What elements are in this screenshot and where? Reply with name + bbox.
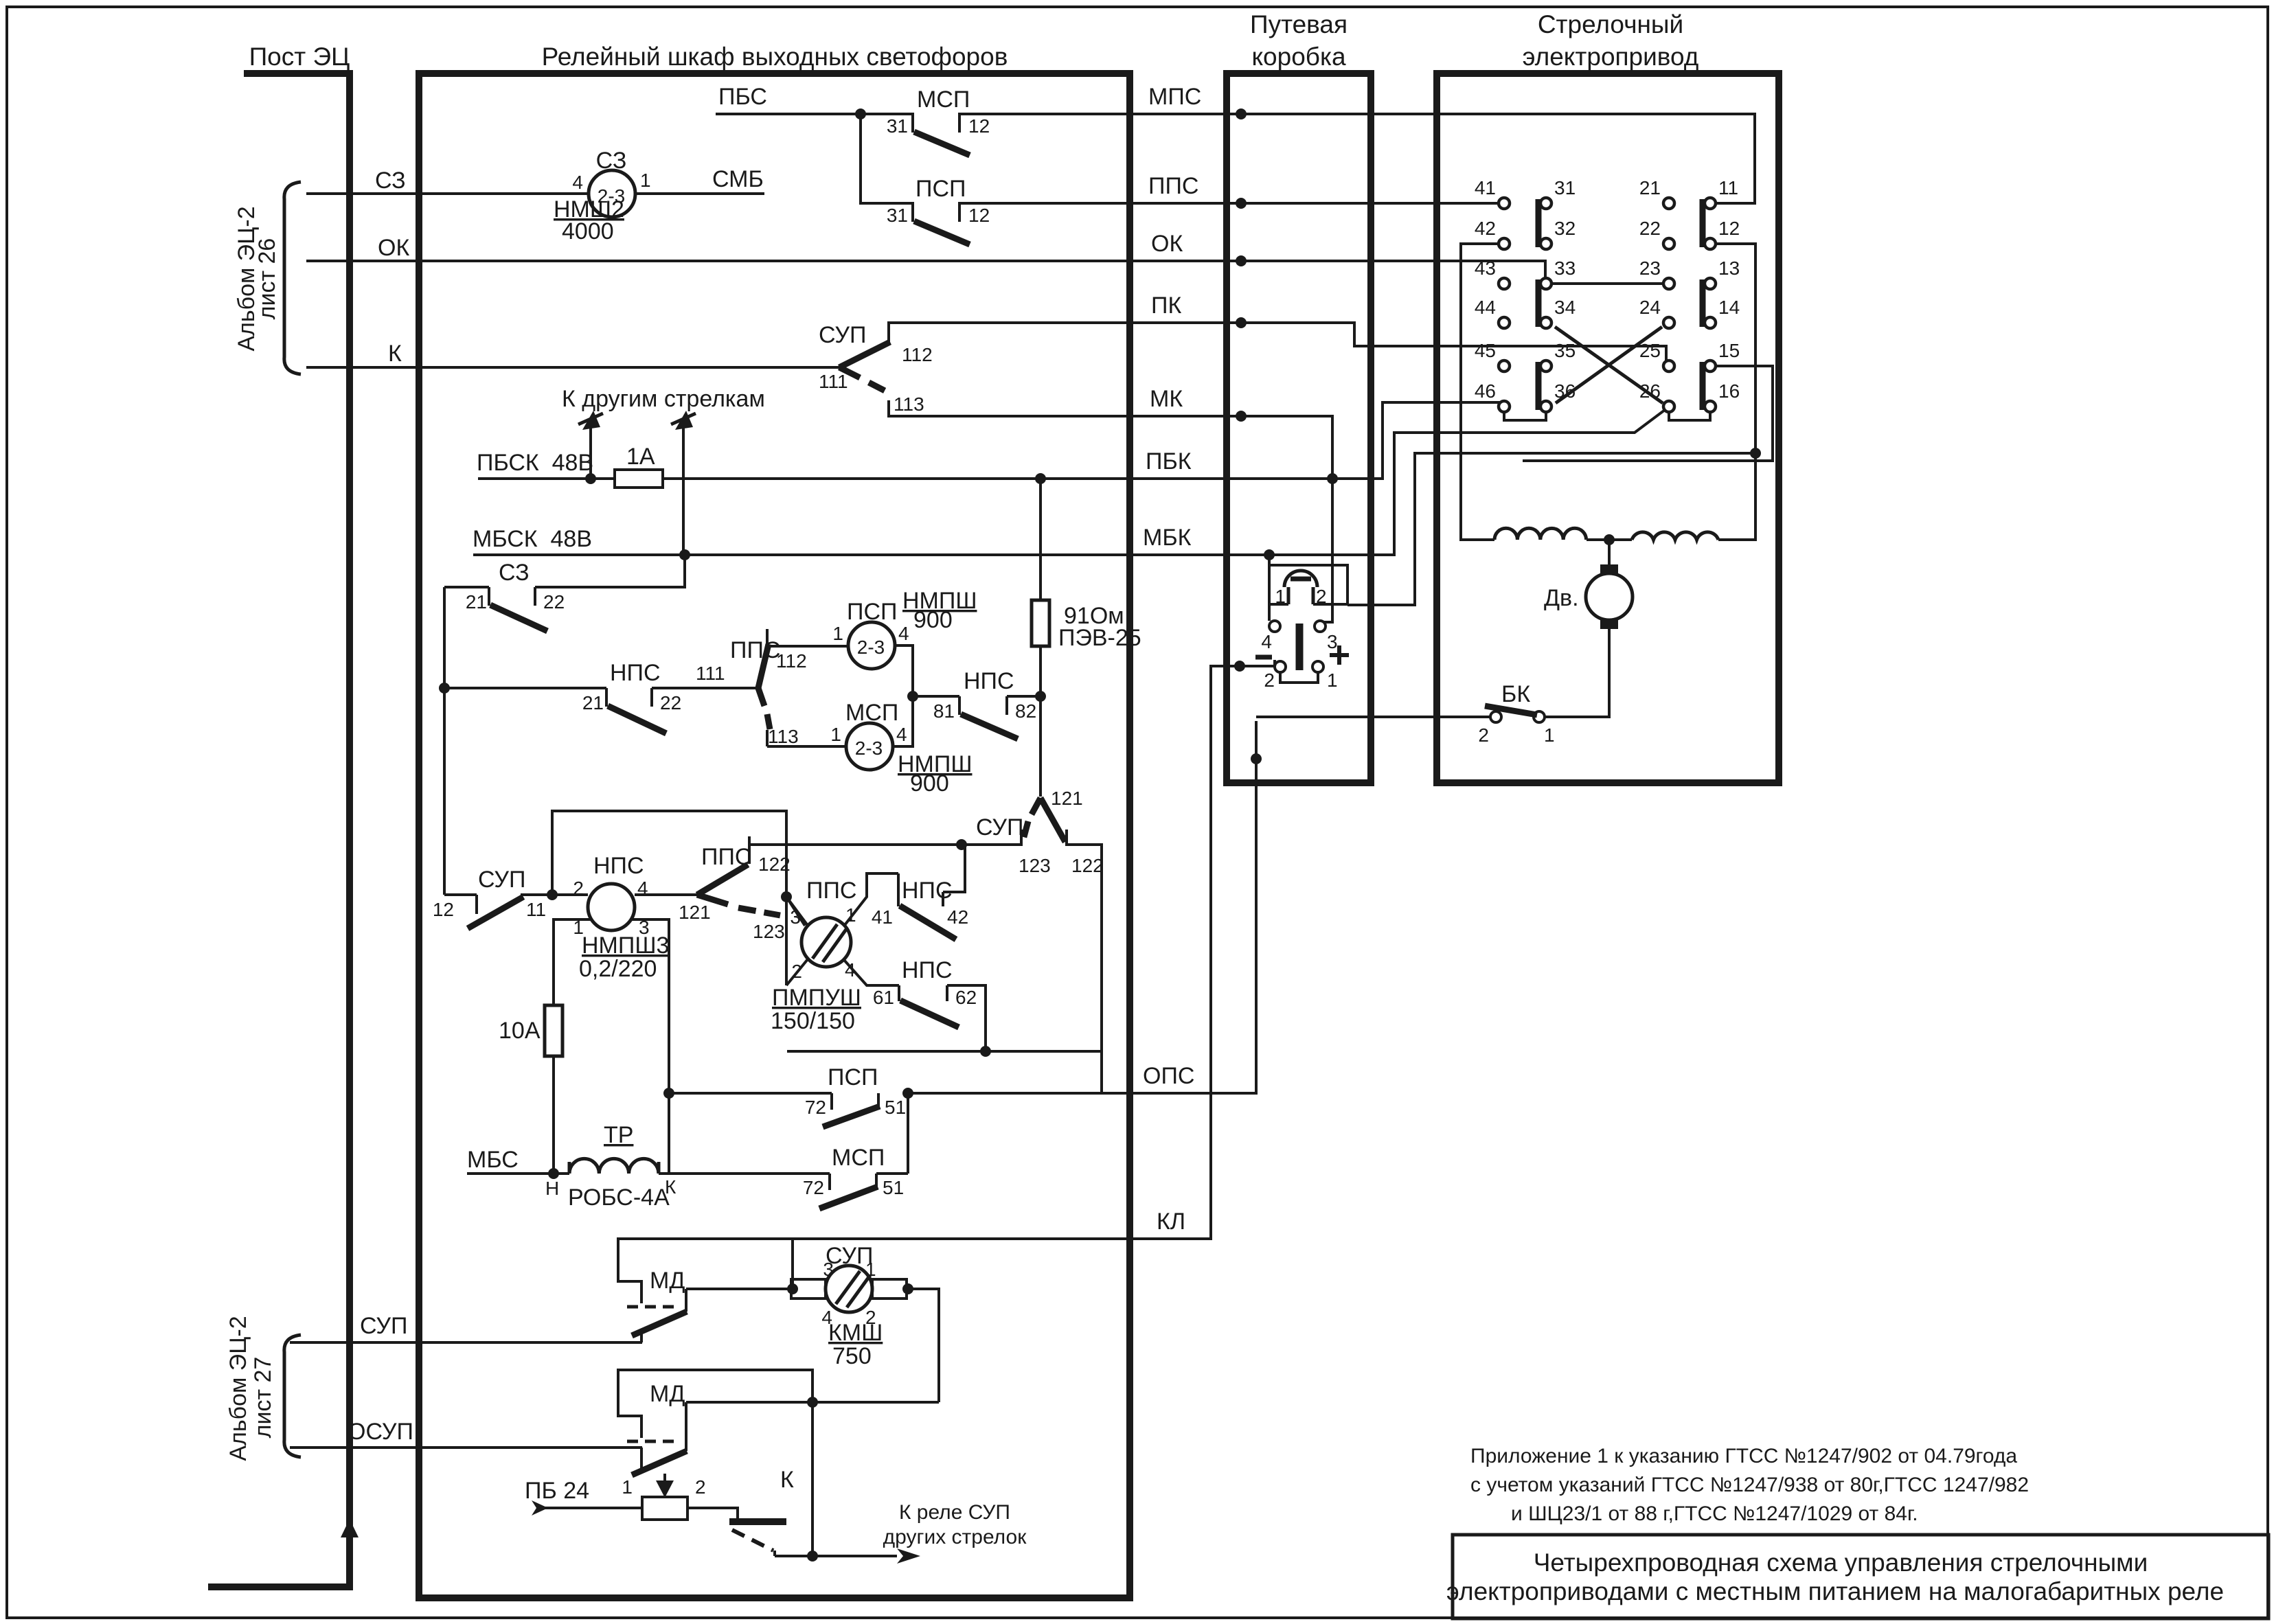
PMPUSh pin stubs: [786, 873, 899, 985]
svg-text:МБС: МБС: [467, 1147, 519, 1173]
svg-text:3: 3: [1327, 631, 1338, 652]
svg-text:121: 121: [1051, 788, 1083, 809]
svg-text:Н: Н: [545, 1178, 559, 1199]
svg-text:1: 1: [845, 904, 856, 926]
svg-text:1: 1: [830, 724, 841, 745]
arrester terminals 2 and 1 with bottom bracket: [1275, 661, 1286, 672]
svg-text:1: 1: [1544, 724, 1555, 746]
svg-text:1А: 1А: [626, 444, 655, 470]
svg-text:43: 43: [1475, 258, 1496, 279]
svg-text:МБСК 48В: МБСК 48В: [473, 526, 592, 552]
wire KL row y1804: [793, 661, 1275, 1239]
MK riser to arrester pin 3: [1326, 479, 1332, 622]
svg-text:ПБС: ПБС: [718, 84, 767, 110]
arrester outer loop: [1269, 555, 1348, 621]
svg-text:4: 4: [1261, 631, 1272, 652]
bracket 46-36: [1504, 412, 1546, 420]
svg-text:82: 82: [1015, 700, 1036, 722]
svg-text:41: 41: [1475, 177, 1496, 198]
svg-text:1: 1: [832, 623, 843, 644]
svg-text:34: 34: [1554, 297, 1576, 318]
svg-text:111: 111: [819, 371, 848, 392]
svg-text:12: 12: [433, 899, 454, 920]
album EC-2 sheet 26 bracket: [284, 182, 301, 374]
svg-text:ПБК: ПБК: [1146, 448, 1192, 474]
svg-text:12: 12: [968, 115, 990, 137]
contact SUP 12-11: [444, 895, 588, 928]
svg-text:СУП: СУП: [360, 1313, 407, 1339]
svg-text:1: 1: [865, 1259, 876, 1280]
svg-text:3: 3: [823, 1259, 834, 1280]
X cross diagonals 34-26 and 24-36: [1555, 327, 1663, 403]
svg-text:22: 22: [660, 692, 681, 713]
svg-text:113: 113: [768, 726, 799, 747]
wire NPS coil pins: [554, 895, 697, 1174]
svg-text:РОБС-4А: РОБС-4А: [568, 1185, 670, 1211]
svg-text:14: 14: [1718, 297, 1740, 318]
autoswitch contact bars col 11-16: [1703, 199, 1707, 410]
svg-text:21: 21: [1639, 177, 1661, 198]
svg-text:МСП: МСП: [832, 1145, 885, 1171]
svg-text:32: 32: [1554, 218, 1576, 239]
svg-text:25: 25: [1639, 340, 1661, 361]
svg-text:КЛ: КЛ: [1157, 1209, 1185, 1235]
svg-text:62: 62: [955, 987, 977, 1008]
svg-text:2: 2: [1316, 586, 1327, 607]
wire SZ row y282 from post to SZ relay: [308, 192, 763, 195]
svg-text:900: 900: [910, 770, 949, 797]
wire PPS row y296 + link from PBS junction: [861, 114, 1499, 203]
svg-text:электроприводами с местным пит: электроприводами с местным питанием на м…: [1446, 1577, 2224, 1605]
svg-text:122: 122: [758, 854, 791, 875]
wire 122-123 row y1230: [749, 845, 1102, 1051]
svg-text:21: 21: [466, 591, 487, 613]
svg-text:1: 1: [1327, 670, 1338, 691]
svg-text:22: 22: [1639, 218, 1661, 239]
fuse 1A on PBSK: [615, 470, 663, 488]
svg-text:44: 44: [1475, 297, 1496, 318]
svg-text:СМБ: СМБ: [712, 166, 764, 192]
wire 12 to winding right riser: [1716, 244, 1755, 540]
autoswitch pin circles and labels: [1499, 198, 1716, 412]
contact PSP 72-51: [669, 1093, 880, 1127]
svg-text:2-3: 2-3: [855, 737, 883, 759]
svg-text:23: 23: [1639, 258, 1661, 279]
svg-text:26: 26: [1639, 380, 1661, 402]
svg-text:51: 51: [885, 1097, 906, 1118]
relay coil PMPUSh 150/150 (diode relay with two slashes): [801, 917, 851, 967]
svg-text:электропривод: электропривод: [1523, 43, 1699, 71]
autoswitch contact bars col 31-36: [1538, 199, 1543, 410]
svg-text:К: К: [388, 341, 402, 367]
wire loop bottom y1531 to OPS: [787, 1051, 1102, 1093]
svg-text:121: 121: [679, 902, 711, 923]
svg-text:НМПШ3: НМПШ3: [582, 933, 669, 959]
svg-text:К: К: [780, 1467, 794, 1493]
svg-text:0,2/220: 0,2/220: [579, 956, 657, 982]
svg-text:ППС: ППС: [1148, 173, 1198, 199]
wire 112 to PSP coil: [767, 646, 848, 746]
relay coil MSP (NMPSh 900): [846, 723, 893, 770]
svg-text:СУП: СУП: [976, 814, 1023, 840]
wire 33-23 row: [1551, 282, 1663, 285]
svg-text:13: 13: [1718, 258, 1740, 279]
svg-text:122: 122: [1071, 855, 1104, 876]
svg-text:ПЭВ-25: ПЭВ-25: [1058, 625, 1141, 651]
wire SUP row y1955: [291, 1341, 641, 1344]
svg-text:СЗ: СЗ: [375, 168, 406, 194]
svg-text:22: 22: [543, 591, 565, 613]
svg-text:КМШ: КМШ: [828, 1320, 883, 1346]
svg-text:ПМПУШ: ПМПУШ: [772, 985, 861, 1011]
svg-text:2: 2: [1478, 724, 1489, 746]
contact MD (upper, slow release): [618, 1239, 793, 1342]
wire PBSK/PBK row y697: [479, 402, 1499, 479]
svg-text:ПБСК 48В: ПБСК 48В: [477, 450, 593, 476]
svg-text:51: 51: [883, 1177, 904, 1198]
svg-text:42: 42: [947, 906, 968, 928]
relay cabinet box: [419, 73, 1130, 1598]
contact SUP 121-123-122 transfer: [1021, 798, 1067, 846]
svg-text:21: 21: [582, 692, 604, 713]
svg-text:81: 81: [933, 700, 955, 722]
contact SUP 111-112-113 on K wire: [839, 323, 890, 416]
wire SUP11 riser to PPS122 loop: [552, 811, 805, 985]
svg-text:ТР: ТР: [604, 1122, 633, 1148]
wire corridor from arrester electrode 2 to winding feed: [1348, 453, 1755, 605]
wire PBS / MPS row y166: [717, 114, 1755, 203]
svg-text:4: 4: [845, 959, 856, 981]
svg-text:СЗ: СЗ: [596, 148, 627, 174]
svg-text:111: 111: [696, 663, 725, 684]
arrester terminals 4 and 3: [1269, 621, 1280, 632]
wire left riser from SZ21 down to NPS row: [443, 587, 446, 895]
fuse 10A: [545, 1005, 562, 1056]
svg-text:СУП: СУП: [478, 867, 525, 893]
svg-text:2-3: 2-3: [857, 637, 885, 658]
svg-text:45: 45: [1475, 340, 1496, 361]
svg-text:ПСП: ПСП: [828, 1064, 878, 1090]
svg-text:ПСП: ПСП: [847, 599, 897, 625]
svg-text:33: 33: [1554, 258, 1576, 279]
svg-text:НПС: НПС: [593, 853, 644, 879]
svg-text:3: 3: [790, 906, 801, 928]
svg-text:ПСП: ПСП: [916, 176, 966, 202]
svg-text:НПС: НПС: [902, 957, 953, 983]
album EC-2 sheet 27 bracket: [284, 1335, 301, 1457]
svg-text:ПБ 24: ПБ 24: [525, 1478, 589, 1504]
motor field windings: [1494, 528, 1718, 540]
svg-text:2: 2: [695, 1476, 706, 1498]
svg-text:1: 1: [1275, 586, 1286, 607]
motor Dv.: [1545, 540, 1609, 717]
arrester center electrode bar: [1296, 624, 1304, 670]
contact NPS 81-82: [959, 696, 1040, 739]
svg-text:123: 123: [1019, 855, 1051, 876]
svg-text:НПС: НПС: [902, 878, 953, 904]
svg-text:61: 61: [873, 987, 894, 1008]
bracket 26-16: [1669, 412, 1710, 420]
svg-text:коробка: коробка: [1251, 43, 1346, 71]
svg-text:ОК: ОК: [378, 235, 409, 261]
svg-text:112: 112: [902, 344, 933, 365]
svg-text:К реле СУП: К реле СУП: [899, 1501, 1010, 1524]
junction dot PBS: [855, 108, 866, 119]
svg-text:СУП: СУП: [819, 322, 866, 348]
wire PK row y470: [889, 323, 1666, 361]
svg-text:900: 900: [913, 607, 953, 633]
svg-text:4: 4: [896, 724, 907, 745]
svg-text:31: 31: [1554, 177, 1576, 198]
wire K row y535: [308, 366, 839, 369]
svg-text:2: 2: [573, 878, 584, 899]
svg-text:НПС: НПС: [964, 668, 1014, 694]
wire MBSK/MBK row y808: [475, 408, 1668, 555]
svg-text:К: К: [665, 1176, 676, 1198]
svg-text:МД: МД: [650, 1381, 685, 1407]
svg-text:МК: МК: [1150, 386, 1183, 412]
svg-text:72: 72: [803, 1177, 824, 1198]
svg-text:СЗ: СЗ: [499, 560, 530, 586]
svg-text:4000: 4000: [562, 218, 614, 244]
svg-text:41: 41: [872, 906, 893, 928]
svg-text:15: 15: [1718, 340, 1740, 361]
wire OPS row y1592: [908, 722, 1256, 1093]
svg-text:ОК: ОК: [1151, 231, 1183, 257]
svg-text:113: 113: [894, 393, 924, 415]
svg-text:лист 26: лист 26: [254, 238, 280, 320]
svg-text:ППС: ППС: [701, 844, 751, 870]
wire PSP51 to MSP51 riser: [907, 1093, 909, 1174]
contact PPS 111-112-113 transfer: [758, 629, 770, 746]
svg-text:и ШЦ23/1 от 88 г,ГТСС №1247/10: и ШЦ23/1 от 88 г,ГТСС №1247/1029 от 84г.: [1511, 1502, 1918, 1525]
svg-text:Путевая: Путевая: [1250, 10, 1348, 38]
title block: [1453, 1535, 2269, 1619]
svg-text:МСП: МСП: [845, 700, 898, 726]
svg-text:72: 72: [805, 1097, 826, 1118]
resistor 91 Ohm PEV-25: [1032, 600, 1049, 646]
svg-text:4: 4: [898, 623, 909, 644]
svg-text:12: 12: [968, 205, 990, 226]
contact SZ 21-22: [444, 555, 685, 631]
svg-text:Релейный шкаф выходных светофо: Релейный шкаф выходных светофоров: [542, 43, 1008, 71]
relay coil PSP (NMPSh 900): [848, 622, 895, 669]
svg-text:МБК: МБК: [1143, 525, 1192, 551]
relay coil NPS (NMPSh3 0,2/220): [588, 884, 635, 930]
svg-text:МД: МД: [650, 1268, 685, 1294]
svg-text:МСП: МСП: [917, 87, 970, 113]
svg-text:ОСУП: ОСУП: [348, 1419, 413, 1445]
svg-text:16: 16: [1718, 380, 1740, 402]
svg-text:150/150: 150/150: [771, 1008, 855, 1034]
svg-text:11: 11: [1718, 177, 1738, 198]
svg-text:112: 112: [776, 650, 807, 672]
svg-text:Дв.: Дв.: [1544, 585, 1579, 611]
relay coil SZ (NMSh2 4000): [589, 170, 635, 217]
svg-text:ППС: ППС: [730, 637, 780, 663]
svg-text:2: 2: [1264, 670, 1275, 691]
svg-text:лист 27: лист 27: [250, 1357, 276, 1439]
svg-text:НПС: НПС: [610, 660, 661, 686]
svg-text:4: 4: [572, 172, 583, 193]
svg-text:750: 750: [832, 1343, 872, 1369]
track junction box (putevaya korobka): [1227, 73, 1371, 783]
contact PPS 121-122-123 transfer near NPS coil: [697, 836, 780, 915]
wire 15 loop: [1523, 366, 1773, 461]
svg-text:МПС: МПС: [1148, 84, 1201, 110]
svg-text:ППС: ППС: [806, 878, 856, 904]
contact MD (lower, slow release): [618, 1370, 939, 1556]
svg-text:Приложение 1 к указанию ГТСС №: Приложение 1 к указанию ГТСС №1247/902 о…: [1470, 1445, 2017, 1467]
contact PSP 31-12: [913, 203, 970, 244]
svg-text:2: 2: [791, 961, 802, 982]
wire 42 to winding riser: [1461, 244, 1499, 540]
svg-text:К другим стрелкам: К другим стрелкам: [562, 386, 765, 412]
svg-text:1: 1: [622, 1476, 633, 1498]
svg-text:БК: БК: [1501, 681, 1530, 707]
svg-text:42: 42: [1475, 218, 1496, 239]
svg-text:Пост ЭЦ: Пост ЭЦ: [249, 43, 350, 71]
wire PSP4-MSP4 vertical with branch to NPS81: [893, 645, 959, 746]
contact NPS 21-22: [444, 688, 758, 733]
wire MK row y606: [889, 416, 1332, 622]
contact NPS 61-62: [899, 985, 986, 1051]
contact MSP 72-51: [819, 1174, 908, 1209]
svg-text:Четырехпроводная схема управле: Четырехпроводная схема управления стрело…: [1534, 1548, 2148, 1577]
coil KMSh 750 (SUP repeater with flanking boxes): [826, 1266, 872, 1312]
arrester dome: [1284, 571, 1317, 604]
svg-text:11: 11: [526, 899, 546, 920]
svg-text:46: 46: [1475, 380, 1496, 402]
switch drive box (strelochny electroprivod): [1437, 73, 1779, 783]
svg-text:Альбом ЭЦ-2: Альбом ЭЦ-2: [225, 1316, 251, 1461]
svg-text:123: 123: [753, 921, 785, 942]
svg-text:других стрелок: других стрелок: [883, 1526, 1027, 1548]
arrow on post line: [341, 1519, 359, 1537]
contact PPS 41-42: [898, 845, 965, 939]
wire OK row y380 full width: [308, 261, 1663, 284]
svg-text:ОПС: ОПС: [1143, 1063, 1194, 1089]
svg-text:31: 31: [887, 205, 908, 226]
svg-text:12: 12: [1718, 218, 1740, 239]
svg-text:Стрелочный: Стрелочный: [1538, 10, 1683, 38]
svg-text:35: 35: [1554, 340, 1576, 361]
wire OSUP row y2108: [291, 1446, 641, 1449]
junction box terminal dots: [1234, 108, 1338, 764]
svg-text:с учетом указаний ГТСС №1247/9: с учетом указаний ГТСС №1247/938 от 80г,…: [1470, 1474, 2029, 1496]
svg-text:36: 36: [1554, 380, 1576, 402]
svg-text:10А: 10А: [499, 1018, 541, 1044]
svg-text:24: 24: [1639, 297, 1661, 318]
contact MSP 31-12 (top): [913, 114, 970, 155]
svg-text:ПК: ПК: [1151, 293, 1181, 319]
svg-text:1: 1: [640, 170, 651, 191]
svg-text:31: 31: [887, 115, 908, 137]
post EC boundary line: [212, 73, 350, 1587]
